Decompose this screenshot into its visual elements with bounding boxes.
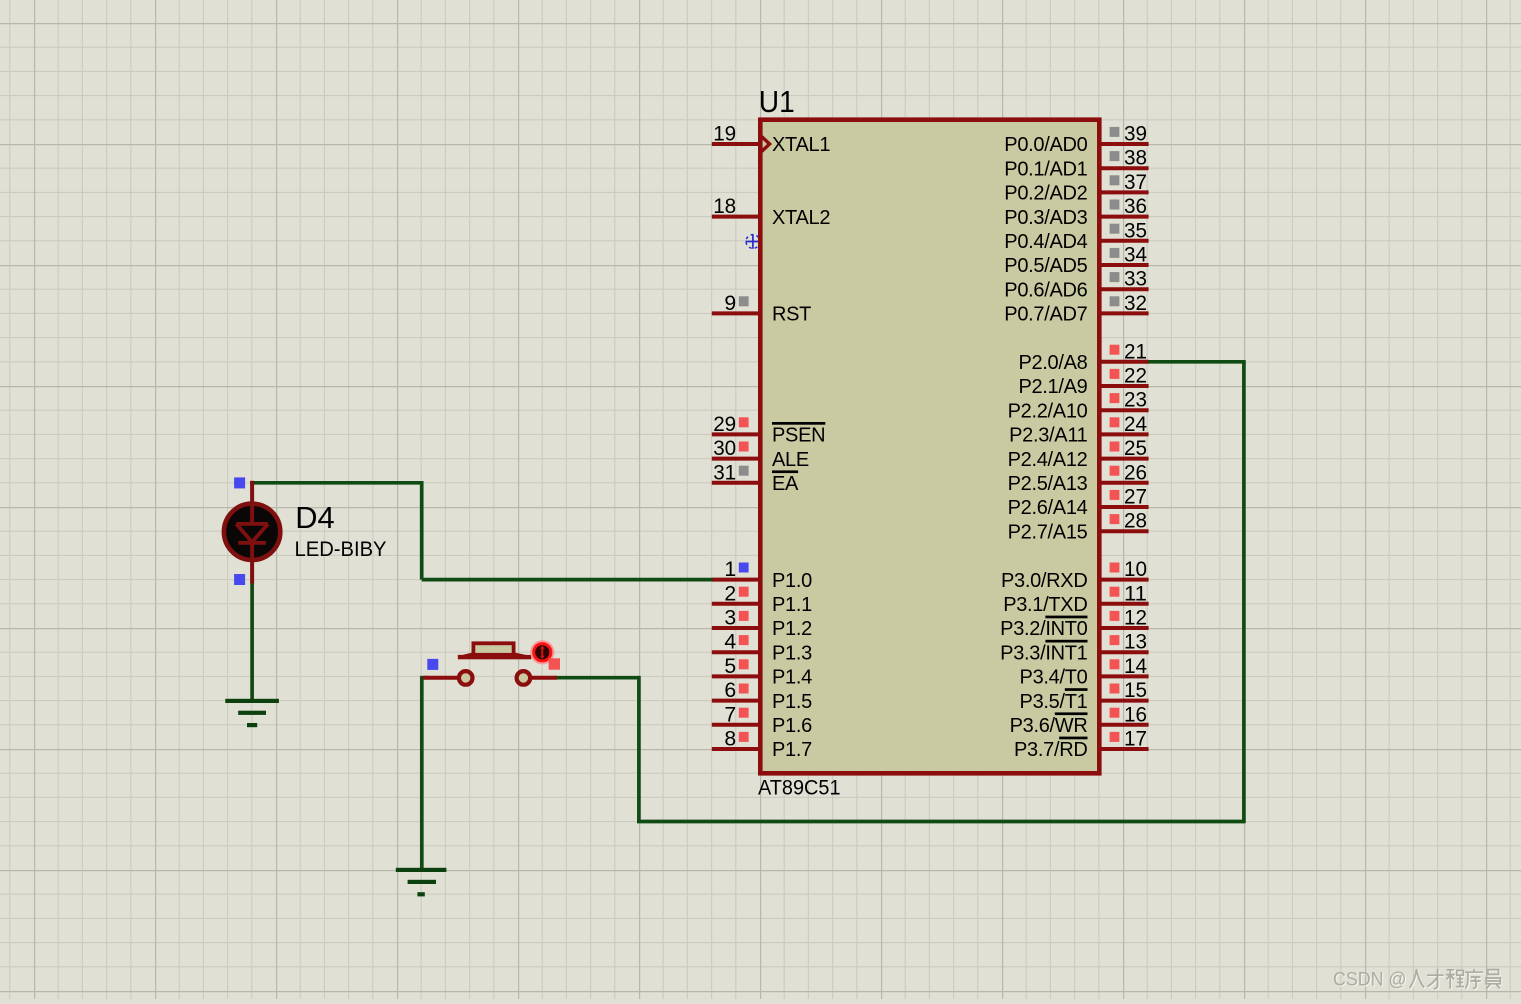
watermark CSDN @人才程序员 xyxy=(1334,970,1501,992)
svg-text:38: 38 xyxy=(1124,146,1147,170)
svg-text:P3.0/RXD: P3.0/RXD xyxy=(1001,570,1088,592)
svg-text:32: 32 xyxy=(1124,291,1147,315)
svg-text:23: 23 xyxy=(1124,388,1147,412)
junction square: LED top terminal (blue) xyxy=(234,477,245,488)
svg-text:33: 33 xyxy=(1124,267,1147,291)
svg-text:P2.2/A10: P2.2/A10 xyxy=(1008,400,1088,422)
svg-text:31: 31 xyxy=(713,460,736,484)
svg-text:P3.4/T0: P3.4/T0 xyxy=(1020,667,1088,689)
pin 37 (P0.2/AD2) right side of U1 xyxy=(1004,170,1148,205)
svg-text:P0.0/AD0: P0.0/AD0 xyxy=(1004,134,1087,156)
svg-text:P3.3/INT1: P3.3/INT1 xyxy=(1000,642,1088,664)
IC U1 body (AT89C51) xyxy=(760,120,1099,774)
svg-text:XTAL2: XTAL2 xyxy=(772,207,830,229)
svg-text:14: 14 xyxy=(1124,654,1147,678)
svg-text:11: 11 xyxy=(1124,581,1147,605)
pin 32 (P0.7/AD7) right side of U1 xyxy=(1004,291,1148,326)
svg-text:39: 39 xyxy=(1124,122,1147,146)
svg-text:36: 36 xyxy=(1124,194,1147,218)
svg-text:P0.2/AD2: P0.2/AD2 xyxy=(1004,183,1087,205)
svg-text:RST: RST xyxy=(772,304,811,326)
wire: long bottom horizontal bus segment xyxy=(637,820,1244,824)
svg-text:P0.1/AD1: P0.1/AD1 xyxy=(1004,158,1087,180)
junction square: LED bottom terminal (blue) xyxy=(234,574,245,585)
svg-text:15: 15 xyxy=(1124,678,1147,702)
svg-text:P2.0/A8: P2.0/A8 xyxy=(1018,352,1087,374)
svg-text:P0.3/AD3: P0.3/AD3 xyxy=(1004,207,1087,229)
wire: LED D4 cathode down to ground xyxy=(250,582,254,700)
pin 16 (P3.6/WR) right side of U1 xyxy=(1010,702,1149,737)
svg-text:P1.2: P1.2 xyxy=(772,618,812,640)
svg-text:34: 34 xyxy=(1124,243,1147,267)
svg-text:7: 7 xyxy=(724,702,736,726)
svg-text:28: 28 xyxy=(1124,509,1147,533)
svg-text:P0.5/AD5: P0.5/AD5 xyxy=(1004,255,1087,277)
svg-text:6: 6 xyxy=(724,678,736,702)
wire: button right contact to corner (horizontal) xyxy=(554,676,639,680)
pin 28 (P2.7/A15) right side of U1 xyxy=(1008,509,1149,544)
pin 10 (P3.0/RXD) right side of U1 xyxy=(1001,557,1149,592)
pin 38 (P0.1/AD1) right side of U1 xyxy=(1004,146,1148,181)
pin 11 (P3.1/TXD) right side of U1 xyxy=(1003,581,1148,616)
push button actuator bar and cap xyxy=(458,643,532,659)
svg-text:21: 21 xyxy=(1124,339,1147,363)
svg-text:1: 1 xyxy=(724,557,736,581)
svg-text:30: 30 xyxy=(713,436,736,460)
wire: horizontal segment to pin 1 P1.0 xyxy=(422,578,713,582)
svg-text:EA: EA xyxy=(772,473,799,495)
ground symbol (button branch) xyxy=(396,868,447,897)
svg-text:PSEN: PSEN xyxy=(772,425,825,447)
pin 1 (P1.0) left side of U1 xyxy=(712,557,812,592)
svg-text:P2.7/A15: P2.7/A15 xyxy=(1008,521,1088,543)
pin 33 (P0.6/AD6) right side of U1 xyxy=(1004,267,1148,302)
svg-text:P1.5: P1.5 xyxy=(772,691,812,713)
svg-text:P1.7: P1.7 xyxy=(772,739,812,761)
svg-text:29: 29 xyxy=(713,412,736,436)
pin 36 (P0.3/AD3) right side of U1 xyxy=(1004,194,1148,229)
pin 26 (P2.5/A13) right side of U1 xyxy=(1008,460,1149,495)
pin 17 (P3.7/RD) right side of U1 xyxy=(1014,727,1149,762)
push button right contact xyxy=(517,671,531,685)
svg-text:P2.3/A11: P2.3/A11 xyxy=(1009,425,1088,447)
svg-text:P2.1/A9: P2.1/A9 xyxy=(1018,376,1087,398)
pin 29 (PSEN) left side of U1 xyxy=(712,412,826,447)
pin 15 (P3.5/T1) right side of U1 xyxy=(1020,678,1149,713)
svg-text:19: 19 xyxy=(713,122,736,146)
wire: vertical segment from button row down to bottom bus xyxy=(637,676,641,822)
pin 34 (P0.5/AD5) right side of U1 xyxy=(1004,243,1148,278)
svg-text:AT89C51: AT89C51 xyxy=(758,775,841,799)
node marker (component origin crosshair near XTAL2) xyxy=(746,234,761,248)
svg-text:P1.0: P1.0 xyxy=(772,570,812,592)
svg-text:P0.7/AD7: P0.7/AD7 xyxy=(1004,304,1087,326)
svg-text:P2.5/A13: P2.5/A13 xyxy=(1008,473,1088,495)
pin 14 (P3.4/T0) right side of U1 xyxy=(1020,654,1149,689)
LED D4 (LED-BIBY) xyxy=(224,481,280,584)
pin 30 (ALE) left side of U1 xyxy=(712,436,809,471)
pin 23 (P2.2/A10) right side of U1 xyxy=(1008,388,1149,423)
pin 4 (P1.3) left side of U1 xyxy=(712,630,812,665)
svg-text:9: 9 xyxy=(724,291,736,315)
pin 19 (XTAL1) left side of U1 xyxy=(712,122,831,157)
svg-text:3: 3 xyxy=(724,606,736,630)
svg-text:P3.5/T1: P3.5/T1 xyxy=(1020,691,1088,713)
svg-text:D4: D4 xyxy=(295,500,334,535)
svg-text:2: 2 xyxy=(724,581,736,605)
pin 24 (P2.3/A11) right side of U1 xyxy=(1009,412,1149,447)
push button click indicator (red circle with double arrow) xyxy=(531,641,553,663)
svg-text:12: 12 xyxy=(1124,606,1147,630)
pin 8 (P1.7) left side of U1 xyxy=(712,727,812,762)
svg-text:LED-BIBY: LED-BIBY xyxy=(295,538,387,561)
svg-text:16: 16 xyxy=(1124,702,1147,726)
svg-text:ALE: ALE xyxy=(772,449,809,471)
svg-text:P1.3: P1.3 xyxy=(772,642,812,664)
svg-text:22: 22 xyxy=(1124,364,1147,388)
pin 12 (P3.2/INT0) right side of U1 xyxy=(1000,606,1148,641)
svg-text:CSDN @: CSDN @ xyxy=(1333,970,1407,991)
svg-text:25: 25 xyxy=(1124,436,1147,460)
pin 3 (P1.2) left side of U1 xyxy=(712,606,812,641)
pin 22 (P2.1/A9) right side of U1 xyxy=(1018,364,1148,399)
svg-text:10: 10 xyxy=(1124,557,1147,581)
svg-text:8: 8 xyxy=(724,727,736,751)
wire: button left contact to corner xyxy=(420,676,429,680)
svg-text:P3.7/RD: P3.7/RD xyxy=(1014,739,1088,761)
svg-text:26: 26 xyxy=(1124,460,1147,484)
svg-text:P2.4/A12: P2.4/A12 xyxy=(1008,449,1088,471)
pin 35 (P0.4/AD4) right side of U1 xyxy=(1004,218,1148,253)
svg-text:13: 13 xyxy=(1124,630,1147,654)
svg-text:P0.4/AD4: P0.4/AD4 xyxy=(1004,231,1087,253)
svg-text:XTAL1: XTAL1 xyxy=(772,134,830,156)
pin 9 (RST) left side of U1 xyxy=(712,291,811,326)
svg-text:27: 27 xyxy=(1124,485,1147,509)
push button switch (right pin stub) xyxy=(531,676,558,680)
svg-text:P2.6/A14: P2.6/A14 xyxy=(1008,497,1088,519)
svg-text:P1.1: P1.1 xyxy=(772,594,812,616)
junction square: button right terminal (red) xyxy=(549,658,560,669)
wire: horizontal segment to pin 21 P2.0/A8 xyxy=(1148,360,1246,364)
svg-text:4: 4 xyxy=(724,630,736,654)
push button left contact xyxy=(459,671,473,685)
svg-text:5: 5 xyxy=(724,654,736,678)
svg-text:P3.6/WR: P3.6/WR xyxy=(1010,715,1088,737)
svg-text:P1.6: P1.6 xyxy=(772,715,812,737)
ground symbol (LED branch) xyxy=(225,699,279,727)
svg-text:35: 35 xyxy=(1124,218,1147,242)
pin 27 (P2.6/A14) right side of U1 xyxy=(1008,485,1149,520)
svg-text:24: 24 xyxy=(1124,412,1147,436)
pin 5 (P1.4) left side of U1 xyxy=(712,654,812,689)
pin 25 (P2.4/A12) right side of U1 xyxy=(1008,436,1149,471)
svg-text:P1.4: P1.4 xyxy=(772,667,812,689)
svg-text:18: 18 xyxy=(713,194,736,218)
wire: vertical segment down to P1.0 row xyxy=(420,481,424,580)
svg-text:17: 17 xyxy=(1124,727,1147,751)
wire: button left corner down to ground xyxy=(420,676,424,869)
wire: right vertical segment up to P2.0 row xyxy=(1242,362,1246,824)
pin 6 (P1.5) left side of U1 xyxy=(712,678,812,713)
pin 7 (P1.6) left side of U1 xyxy=(712,702,812,737)
svg-text:37: 37 xyxy=(1124,170,1147,194)
wire: LED D4 anode to net corner (horizontal) xyxy=(250,481,421,485)
svg-text:P3.1/TXD: P3.1/TXD xyxy=(1003,594,1087,616)
pin 21 (P2.0/A8) right side of U1 xyxy=(1018,339,1148,374)
pin 2 (P1.1) left side of U1 xyxy=(712,581,812,616)
junction square: button left terminal (blue) xyxy=(427,659,438,670)
pin 31 (EA) left side of U1 xyxy=(712,460,799,495)
pin 18 (XTAL2) left side of U1 xyxy=(712,194,831,229)
pin 39 (P0.0/AD0) right side of U1 xyxy=(1004,122,1148,157)
push button switch (left pin stub) xyxy=(423,676,458,680)
svg-text:U1: U1 xyxy=(759,84,795,119)
svg-text:P3.2/INT0: P3.2/INT0 xyxy=(1000,618,1088,640)
svg-text:P0.6/AD6: P0.6/AD6 xyxy=(1004,279,1087,301)
pin 13 (P3.3/INT1) right side of U1 xyxy=(1000,630,1148,665)
